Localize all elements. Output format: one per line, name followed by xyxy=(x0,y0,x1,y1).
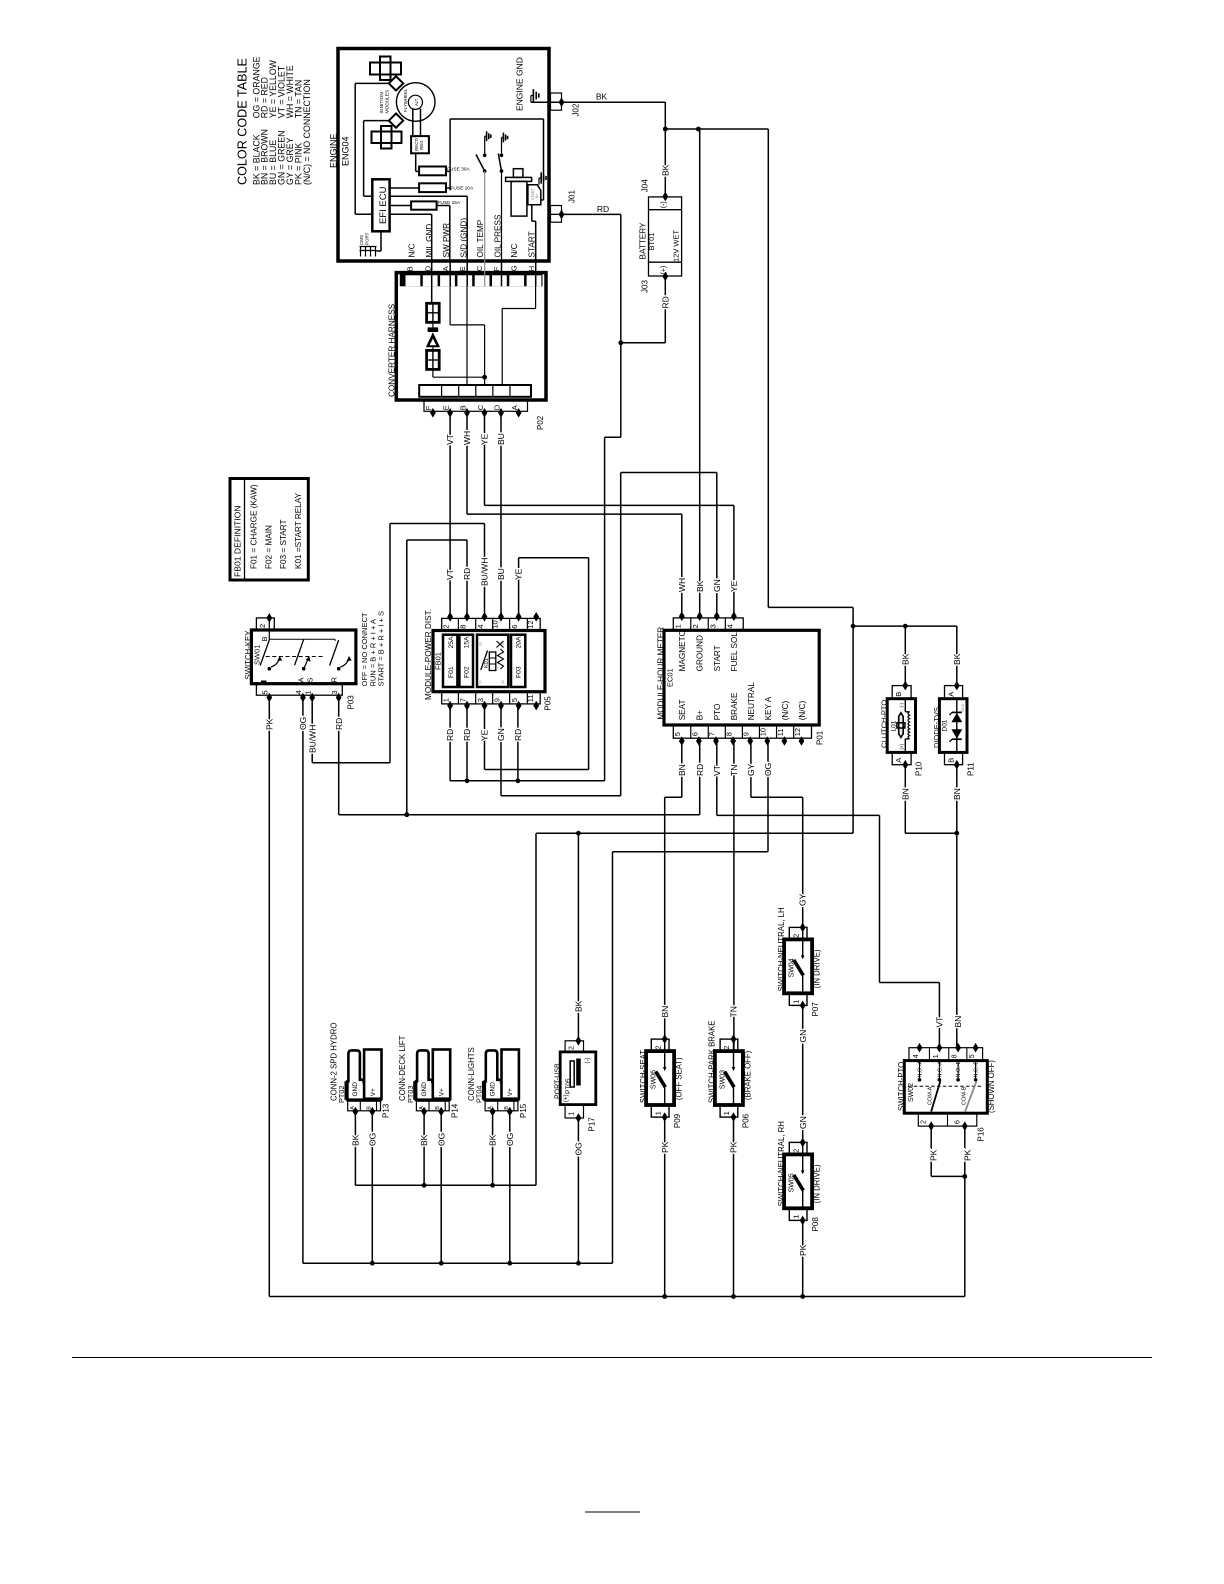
svg-text:FLYWHEEL: FLYWHEEL xyxy=(403,88,408,112)
svg-text:SEAT: SEAT xyxy=(678,700,687,721)
svg-text:VT: VT xyxy=(934,1017,944,1028)
svg-text:2: 2 xyxy=(258,624,267,628)
svg-text:BRAKE: BRAKE xyxy=(730,692,739,720)
svg-text:TN: TN xyxy=(729,1006,739,1017)
svg-text:BK: BK xyxy=(419,1134,429,1146)
svg-text:P02: P02 xyxy=(536,415,545,430)
svg-text:F01: F01 xyxy=(448,666,455,678)
svg-text:GN: GN xyxy=(798,1030,808,1043)
svg-text:MIL GND: MIL GND xyxy=(425,224,434,258)
svg-text:ENGINE: ENGINE xyxy=(329,133,339,168)
svg-text:5: 5 xyxy=(969,1054,976,1058)
svg-text:2: 2 xyxy=(691,624,700,628)
svg-text:P11: P11 xyxy=(966,762,975,776)
svg-text:SWITCH-PTO: SWITCH-PTO xyxy=(897,1062,906,1111)
svg-text:4: 4 xyxy=(294,690,303,694)
svg-text:SW02: SW02 xyxy=(908,1083,915,1102)
svg-text:R: R xyxy=(329,677,338,683)
svg-text:A: A xyxy=(441,266,450,271)
svg-text:SW06: SW06 xyxy=(651,1070,658,1089)
svg-text:(N/C): (N/C) xyxy=(781,700,790,720)
svg-text:SWITCH-NEUTRAL, LH: SWITCH-NEUTRAL, LH xyxy=(777,907,786,991)
svg-text:BK: BK xyxy=(596,92,608,102)
svg-text:F: F xyxy=(492,266,501,271)
svg-text:P14: P14 xyxy=(450,1103,459,1118)
svg-text:(N/C): (N/C) xyxy=(798,700,807,720)
svg-text:START: START xyxy=(527,231,536,257)
svg-text:DIODE-TVS: DIODE-TVS xyxy=(932,707,941,748)
svg-text:F: F xyxy=(424,405,433,410)
svg-text:CONN-2 SPD HYDRO: CONN-2 SPD HYDRO xyxy=(329,1023,338,1101)
svg-text:CONVERTER HARNESS: CONVERTER HARNESS xyxy=(387,303,396,397)
svg-text:SW04: SW04 xyxy=(789,958,796,977)
svg-text:SWITCH-SEAT: SWITCH-SEAT xyxy=(639,1050,648,1103)
svg-text:P07: P07 xyxy=(811,1002,820,1017)
svg-text:1: 1 xyxy=(653,1111,662,1115)
svg-text:F03: F03 xyxy=(516,666,523,678)
svg-text:BK: BK xyxy=(488,1134,498,1146)
svg-text:BK: BK xyxy=(350,1134,360,1146)
svg-text:F02: F02 xyxy=(464,666,471,678)
svg-text:FB01 DEFINITION: FB01 DEFINITION xyxy=(233,505,243,577)
svg-text:B: B xyxy=(260,636,269,641)
svg-text:E: E xyxy=(458,266,467,271)
svg-text:(OFF SEAT): (OFF SEAT) xyxy=(675,1057,684,1100)
svg-text:7: 7 xyxy=(707,732,716,736)
svg-text:MAGNETO: MAGNETO xyxy=(678,630,687,671)
svg-text:S/D (GND): S/D (GND) xyxy=(459,218,468,258)
svg-text:RD: RD xyxy=(445,729,455,741)
svg-text:SWITCH-NEUTRAL, RH: SWITCH-NEUTRAL, RH xyxy=(777,1121,786,1206)
svg-text:30: 30 xyxy=(479,680,483,684)
svg-text:SW03: SW03 xyxy=(719,1070,726,1089)
svg-text:BK: BK xyxy=(952,653,962,665)
svg-text:2: 2 xyxy=(921,1120,928,1124)
svg-text:BU: BU xyxy=(496,568,506,580)
svg-text:4: 4 xyxy=(476,625,485,629)
svg-text:(-): (-) xyxy=(661,201,668,208)
svg-text:J04: J04 xyxy=(641,179,650,192)
svg-text:P05: P05 xyxy=(543,696,552,711)
svg-text:START = B + R + I + S: START = B + R + I + S xyxy=(377,611,386,686)
svg-text:12V WET: 12V WET xyxy=(672,229,681,262)
svg-text:CMS: CMS xyxy=(359,235,364,245)
svg-text:B+: B+ xyxy=(535,194,539,199)
svg-text:B: B xyxy=(894,692,903,697)
svg-text:10: 10 xyxy=(491,620,500,628)
svg-text:BU: BU xyxy=(496,433,506,445)
svg-text:RD: RD xyxy=(513,729,523,741)
svg-text:9: 9 xyxy=(492,698,501,702)
svg-text:OG: OG xyxy=(505,1133,515,1146)
svg-text:YE: YE xyxy=(480,729,490,741)
svg-text:2: 2 xyxy=(791,1149,800,1153)
svg-text:PORT-USB: PORT-USB xyxy=(554,1063,561,1099)
svg-text:COM-A: COM-A xyxy=(928,1086,934,1105)
svg-text:1: 1 xyxy=(722,1111,731,1115)
svg-text:2: 2 xyxy=(569,1046,576,1050)
svg-text:B+: B+ xyxy=(696,710,705,720)
svg-text:BN: BN xyxy=(952,788,962,800)
svg-text:8: 8 xyxy=(458,625,467,629)
svg-text:PK: PK xyxy=(264,718,274,730)
svg-text:NEUTRAL: NEUTRAL xyxy=(747,682,756,721)
svg-text:FB01: FB01 xyxy=(434,652,443,670)
svg-text:COM-B: COM-B xyxy=(961,1086,967,1105)
svg-text:C: C xyxy=(476,404,485,410)
svg-text:P08: P08 xyxy=(811,1217,820,1232)
svg-text:V+: V+ xyxy=(439,1088,446,1096)
svg-text:12: 12 xyxy=(526,620,535,628)
svg-text:11: 11 xyxy=(776,729,785,737)
svg-text:YE: YE xyxy=(514,568,524,580)
svg-text:GND: GND xyxy=(490,1082,497,1097)
svg-text:N.O.-A: N.O.-A xyxy=(917,1060,923,1077)
svg-text:EC01: EC01 xyxy=(665,668,674,687)
svg-text:(SHOWN OFF): (SHOWN OFF) xyxy=(987,1060,996,1113)
svg-text:BT01: BT01 xyxy=(647,233,656,251)
svg-text:86: 86 xyxy=(479,642,483,646)
svg-text:TN = TAN: TN = TAN xyxy=(294,80,304,119)
svg-text:OG: OG xyxy=(573,1142,583,1155)
svg-text:GY: GY xyxy=(797,893,807,906)
svg-text:N/C: N/C xyxy=(407,243,416,257)
svg-text:1: 1 xyxy=(569,1112,576,1116)
svg-text:ALT: ALT xyxy=(414,98,419,106)
svg-text:BK: BK xyxy=(660,164,670,176)
svg-text:OG: OG xyxy=(367,1133,377,1146)
svg-text:P13: P13 xyxy=(382,1103,391,1118)
svg-text:GND: GND xyxy=(352,1082,359,1097)
svg-text:5: 5 xyxy=(673,732,682,736)
svg-text:GN: GN xyxy=(798,1116,808,1129)
svg-text:BK: BK xyxy=(573,1000,583,1012)
svg-text:WH: WH xyxy=(462,431,472,445)
svg-text:7: 7 xyxy=(458,698,467,702)
svg-text:J01: J01 xyxy=(567,190,576,203)
svg-text:15A: 15A xyxy=(464,636,471,649)
svg-text:8: 8 xyxy=(952,1054,959,1058)
svg-text:GROUND: GROUND xyxy=(696,635,705,671)
svg-text:FUSE 10A: FUSE 10A xyxy=(451,186,474,192)
svg-text:RD: RD xyxy=(660,296,670,308)
svg-text:2kW: 2kW xyxy=(960,704,965,712)
svg-text:H: H xyxy=(527,266,536,271)
svg-text:GND: GND xyxy=(421,1082,428,1097)
svg-text:10: 10 xyxy=(759,728,768,736)
svg-text:V+: V+ xyxy=(370,1088,377,1096)
svg-text:B: B xyxy=(458,405,467,410)
svg-text:PT02: PT02 xyxy=(337,1086,346,1103)
svg-text:4: 4 xyxy=(725,624,734,628)
svg-text:PTO: PTO xyxy=(713,704,722,721)
svg-text:PK: PK xyxy=(929,1149,939,1161)
svg-text:BK: BK xyxy=(900,653,910,665)
svg-text:(+): (+) xyxy=(563,1094,569,1102)
svg-text:CLUTCH-PTO: CLUTCH-PTO xyxy=(880,700,889,748)
svg-text:A: A xyxy=(947,692,956,697)
svg-text:(BRAKE OFF): (BRAKE OFF) xyxy=(744,1050,753,1100)
svg-text:D01: D01 xyxy=(941,719,948,731)
svg-text:(+): (+) xyxy=(899,743,904,749)
svg-text:VT: VT xyxy=(712,765,722,776)
svg-text:1: 1 xyxy=(304,690,313,694)
svg-text:F01 = CHARGE (KAW): F01 = CHARGE (KAW) xyxy=(249,484,258,569)
svg-text:3: 3 xyxy=(476,698,485,702)
svg-text:PORT: PORT xyxy=(364,232,369,245)
svg-text:SW05: SW05 xyxy=(789,1173,796,1192)
svg-text:BN: BN xyxy=(677,764,687,776)
svg-text:N.O.-B: N.O.-B xyxy=(956,1060,962,1077)
svg-text:N.C.-A: N.C.-A xyxy=(937,1061,943,1078)
svg-text:GY: GY xyxy=(746,763,756,776)
svg-text:FUSE 30A: FUSE 30A xyxy=(447,166,470,172)
svg-text:(IN DRIVE): (IN DRIVE) xyxy=(813,1164,822,1203)
svg-text:VT: VT xyxy=(445,569,455,580)
svg-text:RECT/: RECT/ xyxy=(414,137,419,151)
svg-text:BN: BN xyxy=(660,1006,670,1018)
svg-text:START: START xyxy=(713,645,722,671)
svg-text:12: 12 xyxy=(793,728,802,736)
svg-text:2: 2 xyxy=(441,625,450,629)
svg-text:PT03: PT03 xyxy=(406,1086,415,1103)
svg-text:IGNITION: IGNITION xyxy=(379,92,385,114)
svg-text:2: 2 xyxy=(653,1046,662,1050)
svg-text:1: 1 xyxy=(791,1000,800,1004)
svg-text:3: 3 xyxy=(708,624,717,628)
svg-text:2: 2 xyxy=(791,934,800,938)
svg-text:F03 = START: F03 = START xyxy=(279,519,288,569)
svg-text:CONN-DECK LIFT: CONN-DECK LIFT xyxy=(398,1035,407,1101)
svg-text:N.C.-B: N.C.-B xyxy=(974,1061,980,1078)
svg-text:COLOR CODE TABLE: COLOR CODE TABLE xyxy=(236,58,250,185)
svg-text:J03: J03 xyxy=(641,280,650,293)
svg-text:(IN DRIVE): (IN DRIVE) xyxy=(813,949,822,988)
svg-text:MODULES: MODULES xyxy=(384,90,390,114)
svg-text:SWITCH-PARK BRAKE: SWITCH-PARK BRAKE xyxy=(708,1020,717,1103)
svg-text:C: C xyxy=(475,265,484,271)
svg-text:CONN-LIGHTS: CONN-LIGHTS xyxy=(467,1047,476,1101)
svg-text:P03: P03 xyxy=(346,695,355,710)
svg-text:RD: RD xyxy=(695,764,705,776)
svg-text:OIL TEMP: OIL TEMP xyxy=(476,219,485,257)
svg-text:SWITCH-KEY: SWITCH-KEY xyxy=(244,630,253,680)
svg-text:VT: VT xyxy=(445,434,455,445)
svg-text:L01: L01 xyxy=(890,720,897,731)
svg-text:KEY A: KEY A xyxy=(764,696,773,720)
svg-text:3: 3 xyxy=(330,690,339,694)
svg-text:FUSE 15A: FUSE 15A xyxy=(438,200,461,206)
svg-text:2: 2 xyxy=(722,1046,731,1050)
svg-text:25A: 25A xyxy=(448,636,455,649)
svg-text:20A: 20A xyxy=(516,636,523,649)
svg-text:MODULE-POWER DIST.: MODULE-POWER DIST. xyxy=(424,609,433,700)
svg-text:A: A xyxy=(297,677,306,682)
svg-text:P06: P06 xyxy=(742,1113,751,1128)
svg-text:6: 6 xyxy=(955,1120,962,1124)
svg-text:PK: PK xyxy=(962,1149,972,1161)
svg-text:BU/WH: BU/WH xyxy=(480,558,490,586)
svg-text:BU/WH: BU/WH xyxy=(307,725,317,753)
svg-text:B: B xyxy=(947,758,956,763)
svg-text:P16: P16 xyxy=(977,1127,986,1142)
svg-text:P09: P09 xyxy=(673,1113,682,1128)
svg-text:11: 11 xyxy=(526,695,535,703)
svg-text:(+): (+) xyxy=(661,266,668,275)
svg-text:B: B xyxy=(406,266,415,271)
svg-text:A: A xyxy=(510,405,519,410)
svg-text:6: 6 xyxy=(510,625,519,629)
svg-text:SW PWR: SW PWR xyxy=(442,223,451,258)
svg-text:6: 6 xyxy=(690,732,699,736)
svg-text:1: 1 xyxy=(933,1054,940,1058)
svg-text:GN: GN xyxy=(712,579,722,592)
svg-text:9: 9 xyxy=(742,732,751,736)
svg-text:(-): (-) xyxy=(585,1058,591,1064)
svg-text:E: E xyxy=(441,405,450,410)
svg-text:85: 85 xyxy=(501,680,505,684)
svg-text:1: 1 xyxy=(441,698,450,702)
svg-text:OIL PRESS: OIL PRESS xyxy=(493,214,502,257)
svg-text:G: G xyxy=(509,265,518,271)
svg-text:PK: PK xyxy=(798,1244,808,1256)
svg-text:N/C: N/C xyxy=(510,243,519,257)
svg-text:BATTERY: BATTERY xyxy=(638,222,647,260)
svg-text:WH: WH xyxy=(677,578,687,592)
svg-text:OG: OG xyxy=(763,763,773,776)
svg-text:ENGINE GND: ENGINE GND xyxy=(515,57,525,111)
svg-text:EFI ECU: EFI ECU xyxy=(378,186,389,224)
svg-text:4: 4 xyxy=(913,1054,920,1058)
svg-text:RD: RD xyxy=(462,568,472,580)
svg-text:BN: BN xyxy=(900,788,910,800)
svg-text:MODULE-HOUR METER: MODULE-HOUR METER xyxy=(656,627,665,720)
svg-text:J02: J02 xyxy=(571,103,580,116)
svg-text:V+: V+ xyxy=(507,1088,514,1096)
svg-text:1: 1 xyxy=(791,1215,800,1219)
svg-text:8: 8 xyxy=(725,732,734,736)
svg-text:FUEL SOL: FUEL SOL xyxy=(730,632,739,672)
svg-text:GN: GN xyxy=(496,728,506,741)
svg-text:D: D xyxy=(492,404,501,410)
svg-text:TN: TN xyxy=(729,765,739,776)
svg-text:PT05: PT05 xyxy=(565,1078,572,1094)
svg-text:ENG04: ENG04 xyxy=(341,136,351,166)
svg-text:BK: BK xyxy=(695,580,705,592)
svg-text:K01: K01 xyxy=(484,658,490,668)
svg-text:F02 = MAIN: F02 = MAIN xyxy=(264,525,273,569)
svg-text:1: 1 xyxy=(673,624,682,628)
svg-text:PT04: PT04 xyxy=(475,1086,484,1103)
svg-text:RD: RD xyxy=(597,204,609,214)
svg-text:RD: RD xyxy=(334,718,344,730)
svg-text:K01 =START RELAY: K01 =START RELAY xyxy=(294,492,303,569)
svg-text:RD: RD xyxy=(462,729,472,741)
svg-text:OG: OG xyxy=(436,1133,446,1146)
svg-text:REG: REG xyxy=(419,140,424,150)
svg-text:BN: BN xyxy=(953,1016,963,1028)
svg-text:P17: P17 xyxy=(587,1117,596,1132)
svg-text:PK: PK xyxy=(729,1141,739,1153)
svg-text:YE: YE xyxy=(729,580,739,592)
svg-text:A: A xyxy=(894,758,903,763)
svg-text:PK: PK xyxy=(660,1141,670,1153)
svg-text:P15: P15 xyxy=(519,1103,528,1118)
svg-text:P10: P10 xyxy=(914,761,923,776)
svg-text:SW01: SW01 xyxy=(253,645,262,665)
svg-text:P01: P01 xyxy=(815,730,824,745)
svg-text:5: 5 xyxy=(510,698,519,702)
svg-text:5: 5 xyxy=(261,690,270,694)
svg-text:YE: YE xyxy=(480,433,490,445)
svg-text:S: S xyxy=(306,677,315,682)
svg-text:(-): (-) xyxy=(899,703,904,708)
